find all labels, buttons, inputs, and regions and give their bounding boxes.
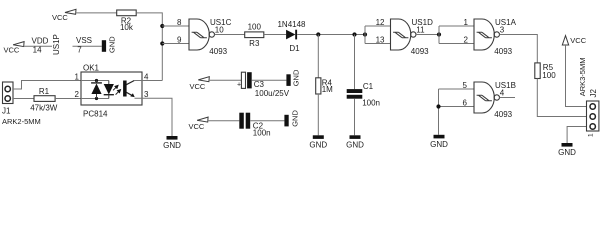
svg-text:100: 100 — [542, 71, 556, 80]
svg-text:1M: 1M — [322, 85, 333, 94]
wire R3 to D1 — [264, 34, 286, 36]
svg-text:J1: J1 — [2, 107, 11, 116]
svg-text:100u/25V: 100u/25V — [255, 89, 290, 98]
svg-text:100n: 100n — [253, 128, 271, 137]
LED B (OK1, down) — [108, 81, 110, 85]
svg-text:VCC: VCC — [52, 13, 68, 22]
wire J2 pin 1 to ground — [567, 127, 586, 144]
power symbol VCC (VDD supply) — [13, 42, 24, 47]
svg-text:OK1: OK1 — [83, 64, 100, 73]
svg-text:100: 100 — [248, 23, 262, 32]
svg-text:GND: GND — [291, 110, 300, 127]
svg-text:VCC: VCC — [190, 82, 206, 91]
svg-text:12: 12 — [376, 18, 385, 27]
svg-text:10k: 10k — [120, 23, 134, 32]
ground (C1) — [350, 135, 361, 139]
svg-text:+: + — [237, 82, 241, 89]
optocoupler OK1 body — [81, 72, 142, 105]
svg-text:5: 5 — [463, 81, 468, 90]
wire US1B input 6 — [439, 106, 475, 108]
svg-text:47k/3W: 47k/3W — [30, 103, 58, 112]
ground (OK1 pin 3) — [167, 136, 178, 140]
wire VCC to C2 — [208, 120, 240, 122]
wire VCC to J2 pin 3 — [566, 45, 587, 107]
svg-text:100n: 100n — [362, 98, 380, 107]
svg-text:GND: GND — [309, 140, 327, 149]
svg-text:US1B: US1B — [495, 81, 516, 90]
wire US1B output stub — [500, 97, 516, 99]
wire R5 to J2 pin 2 — [537, 79, 586, 117]
ground (J2) — [562, 143, 573, 147]
diode D1 — [286, 30, 295, 40]
wire US1D input 12 — [365, 25, 391, 27]
svg-text:GND: GND — [291, 69, 300, 86]
resistor R5 — [535, 63, 540, 79]
svg-text:3: 3 — [500, 26, 505, 35]
wire US1C input 8 — [162, 25, 189, 27]
node G junction — [95, 79, 98, 82]
wire US1C output to R3 — [215, 34, 245, 36]
op-amp US1C — [189, 19, 209, 50]
node B junction (R4) — [316, 32, 320, 36]
svg-text:US1A: US1A — [495, 18, 517, 27]
node F junction — [436, 104, 440, 108]
power symbol VCC (C2) — [197, 117, 208, 122]
wire US1A input tie — [438, 26, 440, 44]
wire US1D input tie — [364, 26, 366, 44]
node D junction (tie) — [363, 32, 367, 36]
svg-text:4093: 4093 — [209, 47, 227, 56]
node C junction (C1) — [352, 32, 356, 36]
svg-text:PC814: PC814 — [83, 110, 108, 119]
svg-text:2: 2 — [464, 36, 469, 45]
svg-text:VCC: VCC — [4, 45, 20, 54]
svg-text:4093: 4093 — [494, 110, 512, 119]
svg-text:R1: R1 — [39, 87, 50, 96]
svg-text:8: 8 — [177, 18, 182, 27]
svg-text:4: 4 — [500, 89, 505, 98]
svg-text:R3: R3 — [249, 39, 260, 48]
wire R4 to ground — [317, 94, 319, 135]
svg-text:VSS: VSS — [76, 36, 92, 45]
ground (R4) — [313, 135, 324, 139]
wire OK1 pin 3 to ground — [135, 98, 173, 136]
wire VCC to C3 — [209, 79, 242, 81]
svg-text:1: 1 — [588, 133, 595, 137]
svg-text:ARK2-5MM: ARK2-5MM — [2, 117, 41, 126]
power symbol VCC (C3) — [198, 77, 209, 82]
power symbol VCC (J2) — [562, 36, 568, 45]
wire US1D input 13 — [365, 43, 391, 45]
svg-text:1N4148: 1N4148 — [277, 20, 306, 29]
svg-text:US1P: US1P — [52, 34, 61, 55]
svg-text:D1: D1 — [289, 44, 300, 53]
svg-text:9: 9 — [177, 36, 182, 45]
node H junction — [95, 97, 98, 100]
wire node C to C1 — [354, 35, 356, 90]
pin 7 VSS wire — [73, 45, 102, 47]
svg-text:7: 7 — [77, 46, 82, 55]
wire US1B input 5 — [439, 88, 475, 90]
svg-text:11: 11 — [416, 26, 425, 35]
light arrow 2 — [116, 91, 120, 95]
wire C3 to ground — [252, 79, 287, 81]
svg-text:ARK3-5MM: ARK3-5MM — [578, 58, 587, 97]
connector J2 — [587, 101, 599, 131]
svg-text:13: 13 — [376, 36, 385, 45]
wire C1 to ground — [354, 99, 356, 136]
transistor Q (OK1) — [123, 81, 127, 97]
op-amp US1D — [391, 19, 411, 50]
wire OK1 pin 4 to node A — [142, 80, 162, 82]
resistor R3 — [245, 32, 264, 38]
op-amp US1A — [474, 19, 494, 50]
wire US1D output — [416, 34, 439, 36]
wire C2 to ground — [250, 120, 284, 122]
wire US1A input 1 — [439, 25, 474, 27]
node A junction (pin 9) — [160, 41, 164, 45]
wire J1 pin to R1 — [13, 98, 34, 100]
svg-text:GND: GND — [108, 36, 117, 53]
capacitor C1 — [347, 89, 363, 93]
wire J1 pin to OK1 pin 1 — [13, 81, 81, 90]
ground (C3) — [286, 74, 290, 86]
ground (VSS pin 7) — [102, 40, 106, 52]
connector J1 — [3, 82, 14, 104]
wire US1A input 2 — [439, 43, 474, 45]
svg-text:GND: GND — [430, 140, 448, 149]
svg-text:GND: GND — [558, 148, 576, 156]
svg-text:4093: 4093 — [494, 47, 512, 56]
ground (C2) — [284, 115, 288, 127]
node E junction — [437, 32, 441, 36]
wire US1A output to R5 — [500, 35, 538, 63]
wire R1 to OK1 pin 2 — [55, 98, 81, 100]
wire node B to R4 — [317, 35, 319, 78]
LED A (OK1, up) — [96, 81, 98, 83]
wire OK1 inner top rail — [81, 80, 109, 82]
wire R2 to node A — [136, 13, 162, 81]
svg-text:6: 6 — [463, 99, 468, 108]
svg-text:J2: J2 — [589, 89, 598, 98]
svg-text:GND: GND — [346, 140, 364, 149]
svg-text:VDD: VDD — [32, 37, 49, 46]
light arrow 1 — [113, 87, 117, 91]
resistor R4 — [316, 78, 321, 94]
svg-text:2: 2 — [75, 90, 80, 99]
wire D1 to US1D inputs — [297, 34, 365, 36]
resistor R2 — [117, 10, 137, 16]
power symbol VCC (R2) — [65, 9, 76, 14]
wire VCC to R2 — [76, 12, 117, 14]
svg-text:VCC: VCC — [189, 122, 205, 131]
svg-text:GND: GND — [163, 141, 181, 150]
wire OK1 inner bottom rail — [81, 98, 109, 100]
svg-text:1: 1 — [75, 73, 80, 82]
svg-text:C3: C3 — [254, 80, 265, 89]
capacitor C2 — [239, 113, 244, 129]
op-amp US1B — [474, 82, 494, 113]
svg-text:14: 14 — [33, 46, 42, 55]
resistor R1 — [34, 96, 55, 102]
wire OK1 pin 4 inner — [134, 80, 142, 82]
pin 14 VDD wire — [24, 45, 52, 47]
wire US1C input 9 — [162, 43, 189, 45]
svg-text:10: 10 — [215, 26, 224, 35]
ground (US1B inputs) — [434, 135, 445, 139]
svg-text:C1: C1 — [363, 82, 374, 91]
node A junction (pin 8) — [160, 24, 164, 28]
svg-text:4093: 4093 — [411, 47, 429, 56]
svg-text:VCC: VCC — [570, 36, 586, 45]
svg-text:1: 1 — [464, 18, 469, 27]
